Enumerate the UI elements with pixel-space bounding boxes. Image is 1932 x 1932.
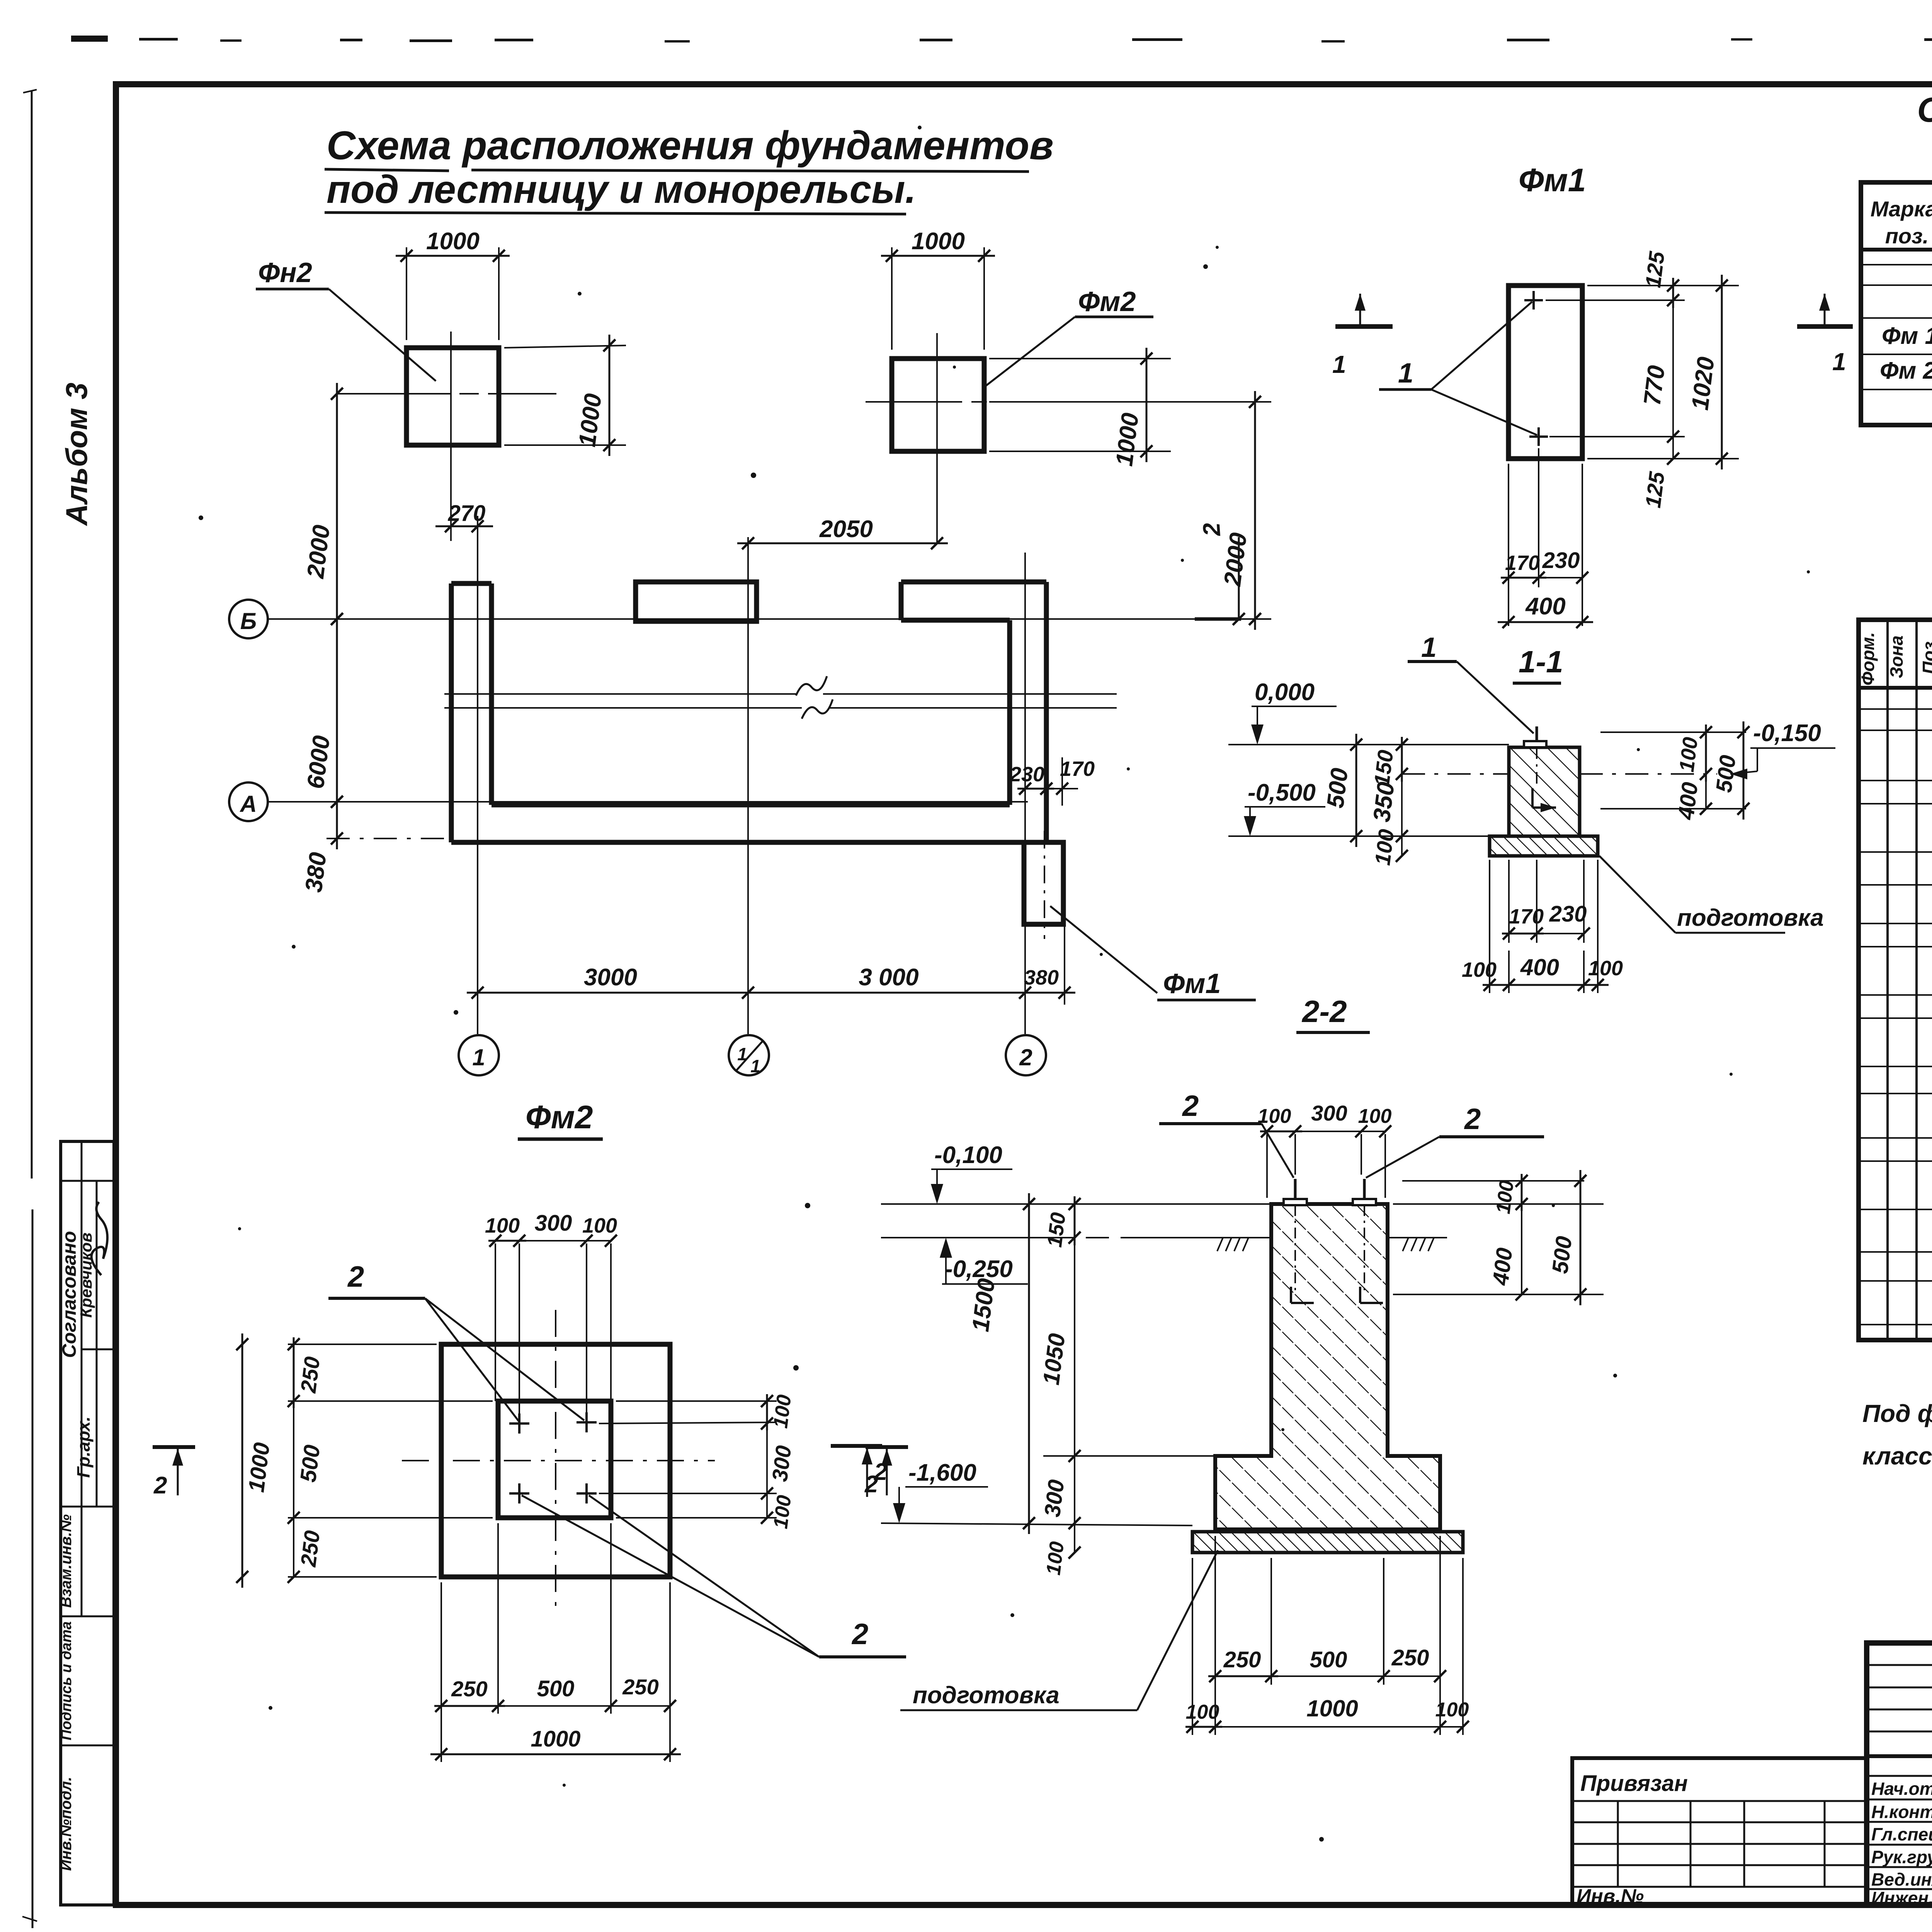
svg-text:250: 250 bbox=[296, 1529, 325, 1568]
podgotovka label section 1-1 bbox=[1599, 856, 1824, 933]
plan: monorail middle rectangle bbox=[636, 582, 757, 621]
svg-text:500: 500 bbox=[295, 1444, 325, 1484]
svg-text:Вед.инж.: Вед.инж. bbox=[1871, 1869, 1932, 1889]
svg-text:230: 230 bbox=[1009, 763, 1044, 786]
scan specks bbox=[199, 126, 1932, 1842]
svg-text:Гл.спец.: Гл.спец. bbox=[1871, 1824, 1932, 1844]
svg-text:150: 150 bbox=[1043, 1211, 1070, 1248]
svg-text:100: 100 bbox=[1358, 1105, 1392, 1128]
Фм2 plan left dim 250 500 250 bbox=[287, 1337, 493, 1583]
section 1-1 pier hatched bbox=[1509, 747, 1580, 836]
svg-text:100: 100 bbox=[1186, 1701, 1219, 1723]
svg-text:Альбом 3: Альбом 3 bbox=[60, 383, 94, 526]
left film edge line bbox=[22, 90, 37, 1928]
Фм2 plan bolts bbox=[509, 1412, 597, 1503]
svg-text:Фм 2: Фм 2 bbox=[1880, 357, 1932, 384]
svg-text:1: 1 bbox=[1332, 350, 1346, 378]
svg-text:Инв.№: Инв.№ bbox=[1577, 1885, 1644, 1908]
svg-text:300: 300 bbox=[767, 1444, 796, 1483]
section 2-2 ground line with hatch bbox=[1215, 1238, 1447, 1251]
section 2-2 pad hatched bbox=[1192, 1532, 1463, 1553]
plan dim 1000 above left square bbox=[396, 228, 510, 340]
label Фн2 with leader bbox=[256, 257, 436, 381]
svg-text:1: 1 bbox=[472, 1044, 485, 1070]
plan dim 2000 right bbox=[989, 391, 1271, 630]
spec table 2 headers bbox=[1858, 632, 1932, 687]
svg-text:380: 380 bbox=[300, 851, 332, 894]
section 1-1 axis dash line bbox=[1402, 773, 1717, 775]
podgotovka label section 2-2 bbox=[900, 1550, 1218, 1710]
svg-text:300: 300 bbox=[1039, 1478, 1069, 1519]
section 2-2 title label bbox=[1296, 994, 1370, 1032]
section 1-1 dim 150 350 100 left bbox=[1368, 737, 1408, 867]
svg-text:Инв.№подл.: Инв.№подл. bbox=[58, 1777, 75, 1871]
level mark -0,150 right bbox=[1730, 720, 1835, 779]
svg-text:770: 770 bbox=[1639, 364, 1670, 407]
plan dim 270 bbox=[435, 501, 493, 532]
svg-text:100: 100 bbox=[769, 1393, 796, 1429]
Фм1 detail rectangle bbox=[1509, 286, 1582, 459]
Фм1 dim 170 230 bottom bbox=[1501, 448, 1588, 626]
title block signature rows texts bbox=[1871, 1775, 1932, 1909]
spec table 1 row Фм1 bbox=[1882, 319, 1932, 350]
svg-text:230: 230 bbox=[1549, 901, 1587, 927]
section 2-2 right ext lines bbox=[1393, 1181, 1604, 1294]
svg-text:100: 100 bbox=[1435, 1699, 1469, 1721]
section 2-2 bolt leader 2 left bbox=[1159, 1090, 1294, 1178]
spec table 1 title bbox=[1917, 91, 1932, 179]
svg-text:1: 1 bbox=[1398, 358, 1413, 389]
svg-text:250: 250 bbox=[296, 1355, 325, 1394]
svg-text:-0,100: -0,100 bbox=[934, 1142, 1002, 1168]
svg-text:поз.: поз. bbox=[1885, 224, 1929, 248]
svg-text:100: 100 bbox=[1492, 1179, 1518, 1215]
plan: foundation Фм1 rectangle bbox=[1024, 831, 1063, 939]
section 2-2 stem hatched bbox=[1215, 1204, 1440, 1529]
axis Б circle bbox=[229, 600, 268, 638]
svg-text:270: 270 bbox=[448, 501, 486, 526]
Фм2 plan left dim 1000 bbox=[236, 1333, 274, 1588]
Фм2 plan leader 2 top bbox=[328, 1260, 584, 1422]
svg-text:2: 2 bbox=[874, 1459, 887, 1485]
Фм2 plan cut mark 2 left bbox=[153, 1447, 195, 1499]
svg-text:100: 100 bbox=[1258, 1105, 1291, 1128]
Фм2 plan top dim 100 300 100 bbox=[485, 1211, 617, 1414]
Фм2 plan centerlines bbox=[402, 1310, 715, 1615]
section 1-1 bolt leader 1 bbox=[1408, 632, 1534, 733]
svg-text:Нач.отд.: Нач.отд. bbox=[1871, 1779, 1932, 1799]
Фм2 plan right dim 100 300 100 bbox=[599, 1393, 796, 1530]
svg-text:Фн2: Фн2 bbox=[258, 257, 312, 288]
svg-text:2-2: 2-2 bbox=[1301, 994, 1347, 1029]
svg-text:Инжен.: Инжен. bbox=[1871, 1888, 1932, 1908]
section 2-2 bolt leader 2 right bbox=[1366, 1103, 1544, 1178]
svg-text:под лестницу и монорельсы: под лестницу и монорельсы. bbox=[327, 167, 916, 211]
svg-text:2: 2 bbox=[347, 1260, 364, 1293]
plan: right square centerlines bbox=[866, 333, 1066, 543]
axis 1 circle bbox=[459, 1035, 499, 1075]
svg-text:Фм1: Фм1 bbox=[1163, 968, 1221, 999]
Фм2 plan inner square bbox=[498, 1401, 611, 1518]
svg-text:170: 170 bbox=[1509, 905, 1544, 928]
svg-text:2050: 2050 bbox=[819, 516, 873, 543]
plan bottom dim 3000 3000 380 bbox=[467, 846, 1075, 1005]
plan: monorail right cap and bar bbox=[901, 582, 1046, 842]
axis 1/1 circle bbox=[729, 1035, 769, 1076]
level mark -0,500 bbox=[1228, 779, 1490, 836]
plan dim 1000 above right square bbox=[881, 228, 995, 350]
svg-text:-0,500: -0,500 bbox=[1248, 779, 1316, 806]
section 1-1 anchor bolt bbox=[1524, 726, 1556, 812]
axis А circle bbox=[229, 782, 268, 821]
plan: right foundation square bbox=[892, 359, 984, 451]
svg-text:1: 1 bbox=[1832, 348, 1846, 376]
level mark -0,250 bbox=[881, 1238, 1215, 1284]
svg-text:380: 380 bbox=[1024, 966, 1059, 989]
title block small table texts bbox=[1577, 1771, 1688, 1908]
Фм1 bolt leader label 1 bbox=[1379, 302, 1537, 435]
label Фм1 with leader bbox=[1050, 906, 1256, 1000]
svg-text:2: 2 bbox=[1464, 1103, 1481, 1136]
svg-text:Гр.арх.: Гр.арх. bbox=[73, 1417, 94, 1478]
section 2-2 bottom dim 250 500 250 bbox=[1208, 1536, 1446, 1735]
svg-text:подготовка: подготовка bbox=[1677, 905, 1824, 931]
section 2-2 view mark 2 left bbox=[831, 1446, 887, 1497]
svg-text:Взам.инв.№: Взам.инв.№ bbox=[58, 1514, 75, 1608]
svg-text:125: 125 bbox=[1641, 250, 1669, 289]
svg-text:Спецификация к схеме располо: Спецификация к схеме расположения bbox=[1917, 91, 1932, 129]
section 1-1 dim 500 right bbox=[1711, 721, 1749, 820]
left stamp texts bbox=[58, 1231, 95, 1871]
svg-text:400: 400 bbox=[1525, 593, 1565, 620]
svg-text:500: 500 bbox=[537, 1676, 575, 1701]
section 1-1 dim 500 left bbox=[1322, 734, 1362, 847]
Фм1 bolts cross marks bbox=[1524, 291, 1548, 446]
level mark -0,100 bbox=[881, 1142, 1271, 1204]
svg-text:0,000: 0,000 bbox=[1255, 679, 1315, 706]
plan: left square centerlines bbox=[350, 332, 556, 541]
Фм1 cut mark 1 left bbox=[1332, 294, 1393, 378]
svg-text:3000: 3000 bbox=[584, 964, 637, 991]
plan dim 1000 right of left square bbox=[504, 335, 626, 456]
svg-text:подготовка: подготовка bbox=[913, 1682, 1060, 1709]
svg-text:Форм.: Форм. bbox=[1858, 632, 1878, 685]
label Фм2 with leader (plan) bbox=[985, 286, 1153, 387]
svg-text:1000: 1000 bbox=[912, 228, 965, 255]
section 1-1 right ext lines bbox=[1600, 732, 1746, 809]
main title line 1: Схема расположения фундаментов bbox=[325, 123, 1054, 172]
svg-text:-0,150: -0,150 bbox=[1753, 720, 1821, 747]
svg-text:250: 250 bbox=[622, 1675, 658, 1699]
svg-text:Подпись и дата: Подпись и дата bbox=[58, 1621, 75, 1740]
svg-text:1: 1 bbox=[1421, 632, 1437, 663]
svg-text:170: 170 bbox=[1505, 551, 1540, 575]
left stamp table bbox=[61, 1141, 114, 1905]
svg-text:Рук.груп.: Рук.груп. bbox=[1871, 1847, 1932, 1867]
Фм2 plan bottom dim 1000 bbox=[430, 1726, 681, 1760]
svg-text:100: 100 bbox=[582, 1214, 617, 1237]
plan: left foundation square bbox=[406, 348, 499, 445]
spec table 2 grid bbox=[1859, 620, 1932, 1340]
section 2-2 dim 500 right bbox=[1547, 1170, 1586, 1305]
svg-text:2: 2 bbox=[1182, 1090, 1199, 1122]
svg-text:100: 100 bbox=[1462, 958, 1497, 981]
section 1-1 pad hatched bbox=[1490, 836, 1598, 856]
section 2-2 dim 150 1050 300 100 left bbox=[1038, 1196, 1215, 1577]
svg-text:500: 500 bbox=[1322, 767, 1353, 810]
svg-text:Фм1: Фм1 bbox=[1519, 162, 1586, 198]
section 2-2 bottom dim 100 1000 100 bbox=[1185, 1558, 1469, 1735]
svg-text:230: 230 bbox=[1542, 548, 1580, 573]
level mark 0,000 bbox=[1228, 679, 1509, 745]
svg-text:250: 250 bbox=[1223, 1647, 1261, 1672]
svg-text:250: 250 bbox=[1391, 1645, 1429, 1670]
section 1-1 dim 100 400 100 bottom bbox=[1462, 860, 1623, 993]
axis 1/1 line bbox=[747, 537, 749, 1034]
svg-text:400: 400 bbox=[1520, 954, 1559, 980]
svg-text:Марка,: Марка, bbox=[1871, 197, 1932, 221]
svg-text:Схема расположения фундамент: Схема расположения фундаментов bbox=[327, 123, 1054, 168]
Фм2 plan cut mark 2 right bbox=[864, 1447, 908, 1498]
main title line 2: под лестницу и монорельсы bbox=[325, 167, 916, 214]
svg-text:Под фундаментами выполнить: Под фундаментами выполнить бетонную подг… bbox=[1862, 1400, 1932, 1427]
svg-text:125: 125 bbox=[1641, 470, 1669, 509]
svg-text:100: 100 bbox=[769, 1494, 796, 1530]
svg-text:3 000: 3 000 bbox=[859, 964, 918, 991]
plan dim 380 left bbox=[300, 791, 451, 894]
svg-text:Зона: Зона bbox=[1886, 635, 1906, 678]
section 2-2 dim 1500 left bbox=[967, 1193, 1035, 1534]
axis 2 circle bbox=[1006, 1035, 1046, 1075]
section 1-1 title bbox=[1513, 645, 1563, 683]
section 1-1 dim 100 400 right bbox=[1673, 724, 1712, 821]
svg-text:100: 100 bbox=[1370, 828, 1399, 866]
svg-text:500: 500 bbox=[1711, 754, 1740, 794]
Фм1 detail title bbox=[1519, 162, 1586, 198]
svg-text:300: 300 bbox=[535, 1211, 572, 1236]
svg-text:Кревчиков: Кревчиков bbox=[77, 1233, 95, 1318]
svg-text:2: 2 bbox=[153, 1472, 167, 1499]
section 1-1 dim 170 230 bottom bbox=[1502, 860, 1590, 943]
svg-text:1: 1 bbox=[737, 1044, 747, 1064]
plan dim 2050 bbox=[737, 516, 948, 549]
Фм1 cut mark 1 right bbox=[1797, 294, 1853, 376]
plan: staircase foundation left bar bbox=[451, 583, 492, 842]
Фм1 dim 400 bottom bbox=[1498, 593, 1593, 628]
spec table 1 grid bbox=[1861, 182, 1932, 425]
svg-text:1-1: 1-1 bbox=[1519, 645, 1563, 679]
sheet top edge scan marks bbox=[71, 36, 1932, 43]
svg-text:100: 100 bbox=[1588, 957, 1623, 980]
svg-text:А: А bbox=[239, 791, 257, 817]
section 2 cut mark upper bbox=[1195, 522, 1245, 625]
title block small left table bbox=[1572, 1758, 1867, 1905]
svg-text:400: 400 bbox=[1673, 781, 1702, 821]
svg-text:500: 500 bbox=[1547, 1235, 1577, 1275]
svg-text:Фм2: Фм2 bbox=[526, 1099, 593, 1135]
axis Б line bbox=[268, 618, 1271, 620]
svg-text:100: 100 bbox=[1675, 736, 1702, 773]
svg-text:-1,600: -1,600 bbox=[908, 1459, 976, 1486]
svg-text:300: 300 bbox=[1311, 1101, 1347, 1125]
Фм2 plan bottom dim 250 500 250 bbox=[434, 1523, 676, 1762]
svg-text:Фм2: Фм2 bbox=[1078, 286, 1136, 317]
note under table bbox=[1862, 1400, 1932, 1470]
level mark -1,600 bbox=[881, 1459, 1192, 1526]
Фм2 plan title bbox=[518, 1099, 603, 1139]
axis 2 line bbox=[1024, 553, 1026, 1034]
spec table 1 row Фм2 bbox=[1880, 353, 1932, 386]
svg-text:2: 2 bbox=[851, 1618, 868, 1651]
svg-text:100: 100 bbox=[1042, 1540, 1068, 1576]
vertical margin text Альбом 3 bbox=[60, 383, 94, 526]
svg-text:1000: 1000 bbox=[1306, 1696, 1358, 1721]
svg-text:Б: Б bbox=[240, 608, 257, 634]
svg-text:400: 400 bbox=[1488, 1247, 1517, 1287]
Фм1 dim 125 770 125 right bbox=[1546, 250, 1739, 509]
svg-text:170: 170 bbox=[1060, 757, 1095, 781]
svg-text:класса В 3,5.: класса В 3,5. bbox=[1862, 1442, 1932, 1470]
title block main frame bbox=[1867, 1643, 1932, 1905]
plan dim 1000 right of right square bbox=[989, 348, 1171, 468]
plan dim 2000 left bbox=[302, 383, 408, 630]
svg-text:350: 350 bbox=[1368, 781, 1400, 823]
plan: monorail beam double line with breaks bbox=[444, 676, 1117, 719]
Фм2 plan leader 2 bottom bbox=[522, 1495, 906, 1657]
section 2-2 top dim 100 300 100 bbox=[1258, 1101, 1392, 1198]
axis 1 line bbox=[477, 516, 478, 1034]
svg-text:Поз.: Поз. bbox=[1919, 636, 1932, 674]
spec table 1 headers bbox=[1871, 194, 1932, 248]
section 2-2 dim 100 400 right bbox=[1488, 1174, 1527, 1301]
plan dim 6000 left bbox=[302, 608, 343, 813]
svg-text:1: 1 bbox=[750, 1056, 760, 1076]
left stamp signature bbox=[79, 1202, 117, 1276]
svg-text:Привязан: Привязан bbox=[1580, 1771, 1688, 1796]
axis А line bbox=[268, 801, 1028, 803]
svg-text:2: 2 bbox=[1019, 1044, 1032, 1070]
svg-text:250: 250 bbox=[451, 1677, 487, 1701]
svg-text:Фм 1: Фм 1 bbox=[1882, 323, 1932, 349]
section 2-2 anchor bolts bbox=[1284, 1179, 1383, 1303]
svg-text:1000: 1000 bbox=[531, 1726, 580, 1752]
Фм1 dim 1020 right bbox=[1687, 275, 1728, 469]
svg-text:500: 500 bbox=[1310, 1647, 1347, 1672]
Фм2 plan outer square bbox=[441, 1344, 670, 1577]
plan: staircase foundation bottom bar bbox=[451, 805, 1048, 842]
plan dims 230 170 at axis 2 bbox=[1009, 757, 1095, 806]
svg-text:2: 2 bbox=[1198, 522, 1226, 537]
svg-text:100: 100 bbox=[485, 1214, 520, 1237]
svg-text:1000: 1000 bbox=[426, 228, 480, 255]
svg-text:Н.контр.: Н.контр. bbox=[1871, 1802, 1932, 1822]
